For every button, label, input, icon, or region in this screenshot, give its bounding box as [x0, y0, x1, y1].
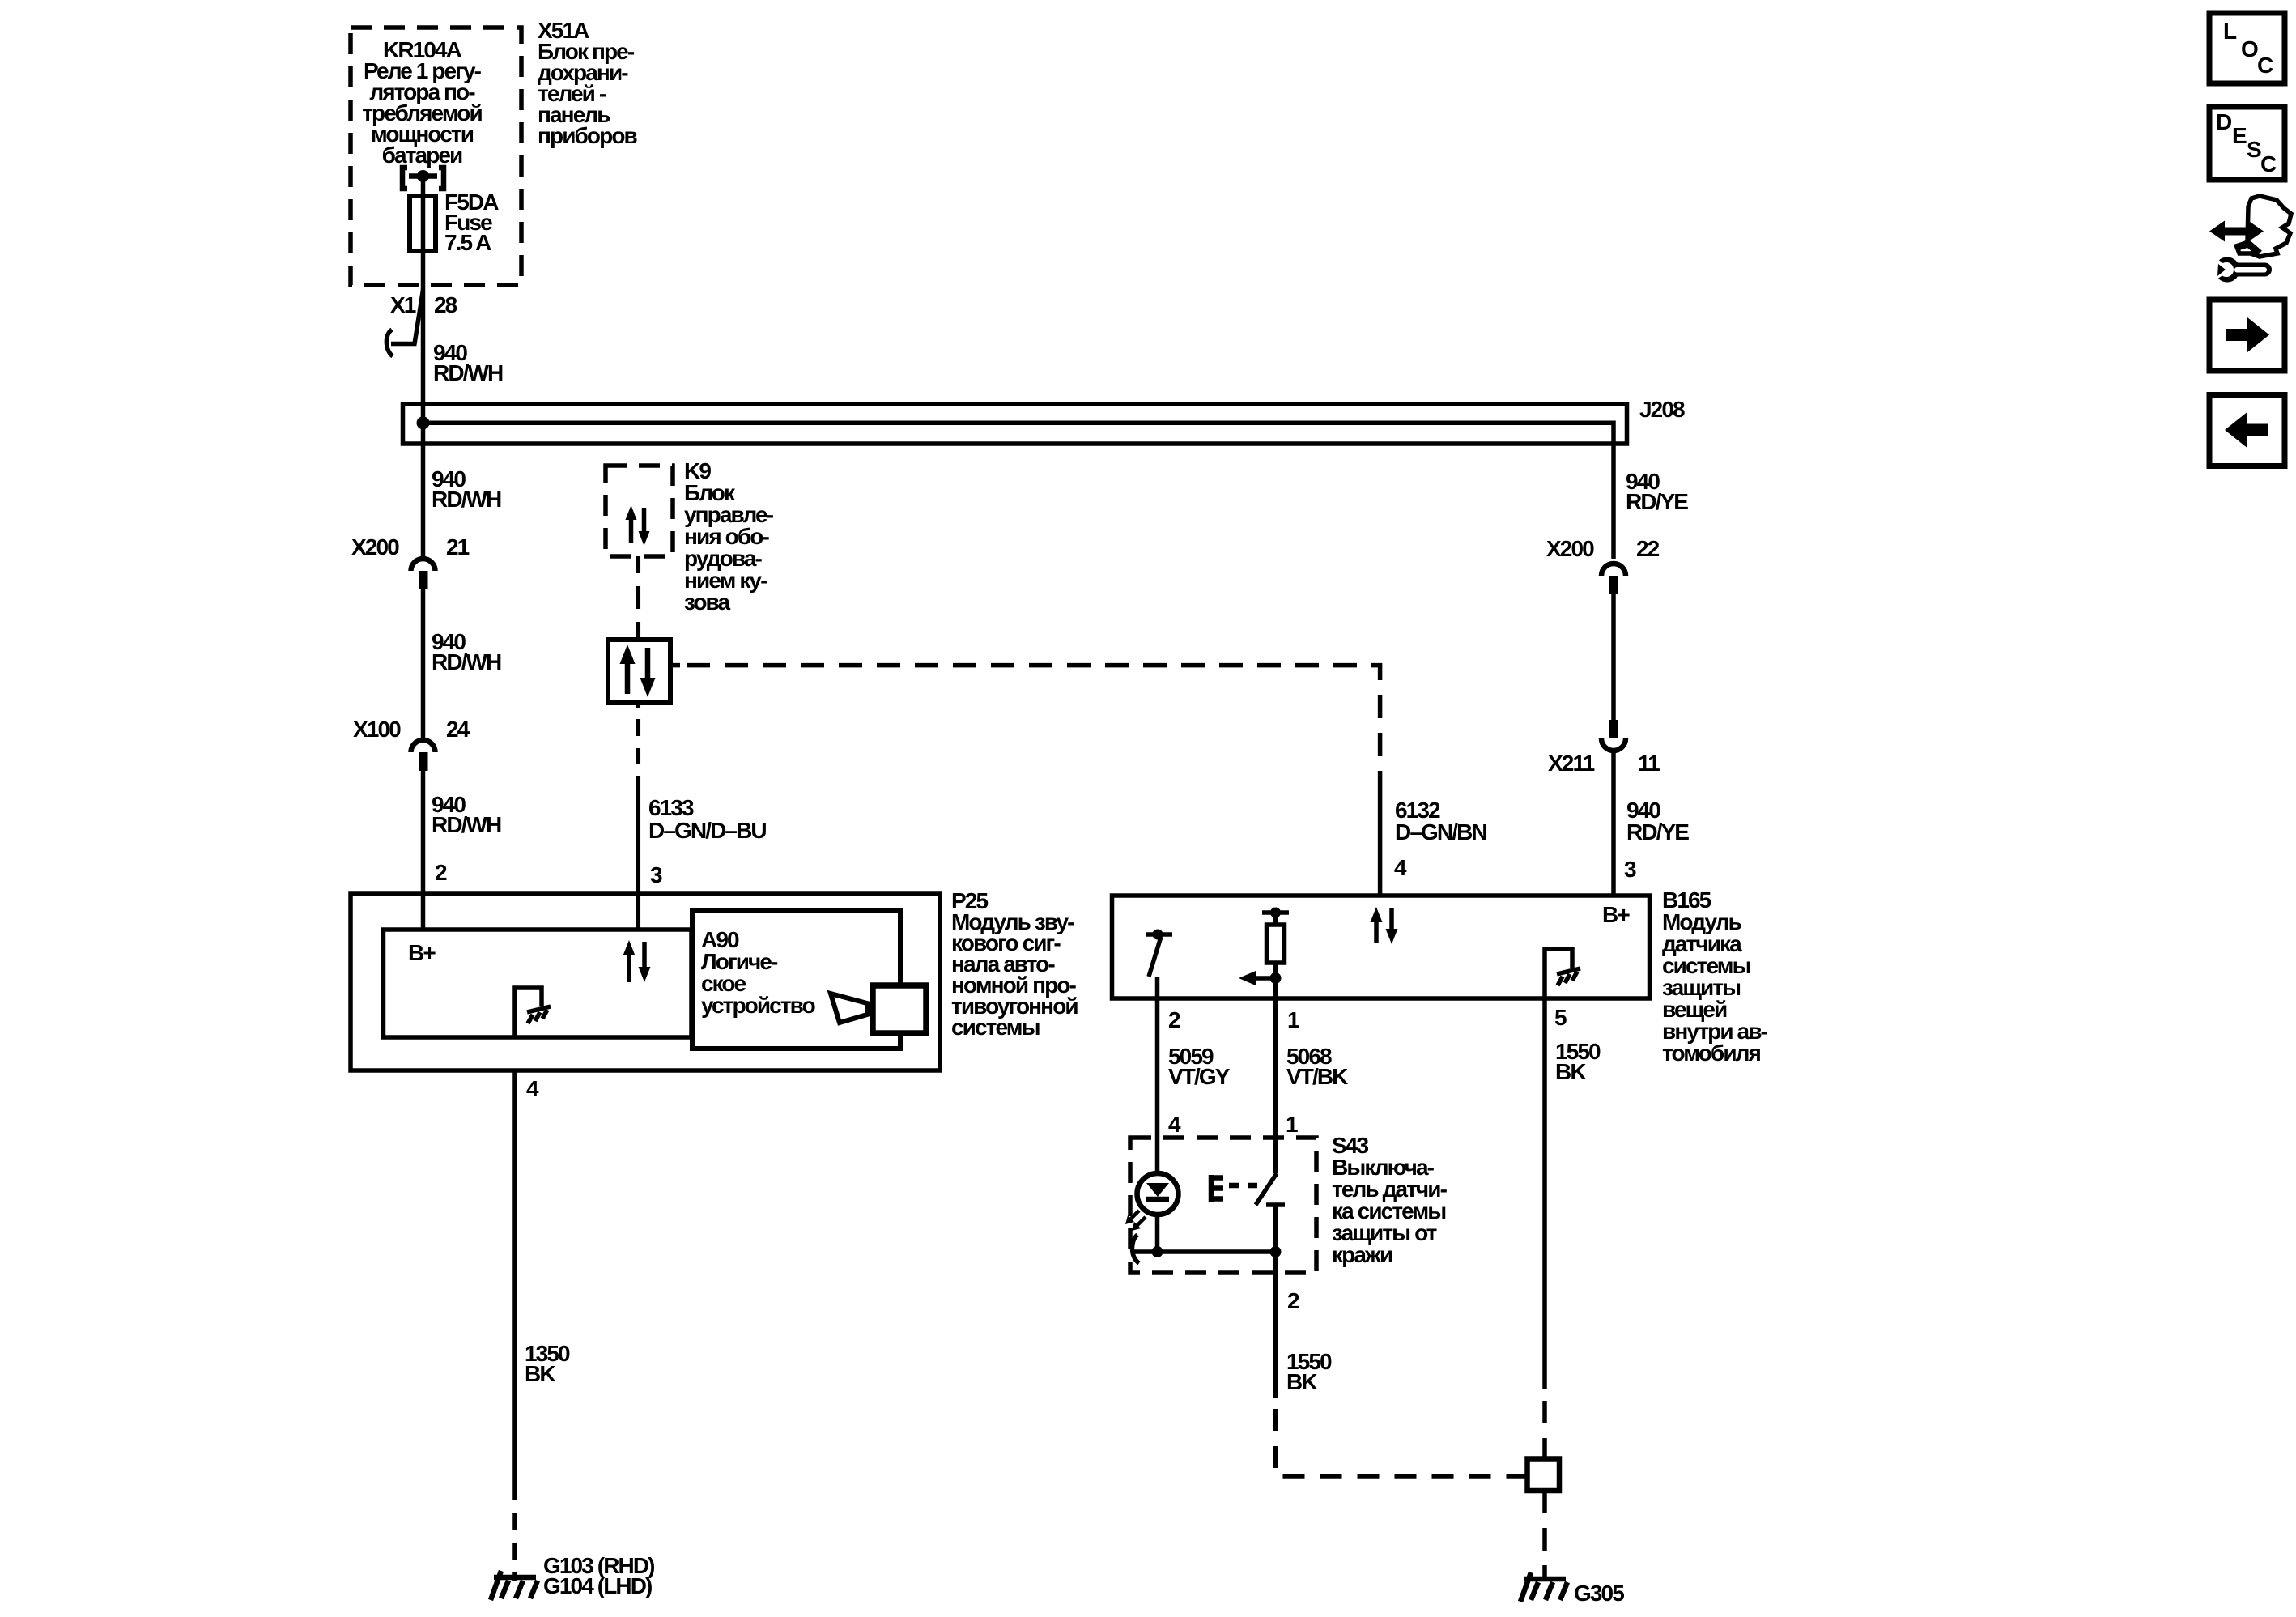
wire label 6132 D-GN/BN	[1395, 798, 1486, 845]
fuse block X51A label	[538, 18, 638, 148]
bus bar J208	[403, 404, 1627, 444]
svg-text:X1: X1	[390, 292, 416, 317]
svg-text:RD/WH: RD/WH	[432, 649, 501, 674]
svg-text:4: 4	[1394, 855, 1407, 880]
S43 switch	[1256, 1173, 1285, 1252]
logic device A90 box	[692, 911, 900, 1049]
svg-text:RD/YE: RD/YE	[1626, 819, 1689, 845]
A90 label	[701, 927, 816, 1018]
ground G103/G104	[491, 1571, 538, 1600]
svg-text:RD/WH: RD/WH	[432, 812, 501, 837]
svg-text:X200: X200	[351, 534, 399, 560]
svg-text:22: 22	[1636, 536, 1660, 561]
switch S43 dashed box	[1130, 1138, 1316, 1273]
wire label 940 RD/YE	[1626, 798, 1689, 845]
wire splice to ground G305 (dashed)	[1542, 1491, 1547, 1579]
svg-text:RD/YE: RD/YE	[1626, 489, 1688, 514]
B165 serial data arrows	[1371, 907, 1398, 944]
wire label 6133 D-GN/D-BU	[648, 795, 766, 843]
fuse F5DA	[410, 196, 436, 251]
svg-text:VT/BK: VT/BK	[1286, 1064, 1348, 1089]
relay contact terminal symbol	[402, 168, 444, 189]
wire to B165 pin 4	[1378, 778, 1383, 896]
wire data box to P25 pin 3	[636, 703, 641, 930]
svg-text:2: 2	[1287, 1288, 1299, 1313]
svg-text:C: C	[2260, 151, 2277, 177]
wire label 940 RD/WH	[433, 340, 503, 385]
wire label 940 RD/YE	[1626, 469, 1688, 514]
svg-text:X200: X200	[1546, 536, 1594, 561]
svg-text:G104 (LHD): G104 (LHD)	[543, 1573, 652, 1598]
fuse F5DA label	[444, 189, 499, 255]
svg-text:приборов: приборов	[538, 123, 638, 148]
svg-text:28: 28	[434, 292, 457, 317]
horn sounder icon	[831, 985, 926, 1033]
svg-text:BK: BK	[1555, 1059, 1586, 1084]
ground G103/G104 label	[543, 1553, 654, 1598]
svg-text:батареи: батареи	[382, 143, 462, 168]
svg-text:RD/WH: RD/WH	[433, 360, 503, 385]
S43 internal wire and junctions	[1132, 1235, 1281, 1273]
fuse block X51A dashed box	[351, 28, 521, 285]
switch actuator E symbol	[1211, 1175, 1257, 1202]
splice box	[1528, 1459, 1560, 1491]
svg-text:O: O	[2241, 36, 2258, 62]
svg-text:E: E	[2232, 123, 2247, 148]
S43 LED indicator	[1137, 1173, 1179, 1252]
svg-text:X211: X211	[1548, 751, 1595, 776]
B165 tamper switch	[1146, 930, 1172, 999]
icon arrow right box	[2209, 300, 2285, 371]
B165 signal out arrow	[1239, 971, 1282, 985]
icon LOC box	[2209, 13, 2285, 83]
svg-text:5: 5	[1554, 1005, 1567, 1030]
svg-text:зова: зова	[684, 589, 730, 615]
serial data box	[608, 640, 670, 703]
svg-text:3: 3	[1624, 857, 1636, 882]
connector X200 pin 21	[411, 559, 436, 589]
wire X100 to P25 pin 2	[421, 771, 426, 930]
svg-text:3: 3	[650, 862, 662, 887]
svg-text:D–GN/BN: D–GN/BN	[1395, 819, 1486, 845]
wire label 5059 VT/GY	[1168, 1044, 1231, 1089]
relay KR104A label	[362, 37, 482, 168]
svg-text:G305: G305	[1574, 1581, 1624, 1606]
icon arrow left box	[2209, 395, 2285, 466]
connector X100 pin 24	[411, 740, 436, 771]
svg-text:B+: B+	[408, 940, 436, 965]
module K9 dashed box	[606, 466, 673, 556]
icon DESC box	[2209, 107, 2285, 180]
module K9 label	[684, 458, 774, 615]
svg-text:6133: 6133	[648, 795, 694, 820]
wire B165 pin 5 dashed to splice	[1542, 1401, 1547, 1458]
wire X211 to B165 pin 3	[1611, 753, 1616, 896]
ground G305	[1520, 1572, 1567, 1602]
module B165 label	[1662, 887, 1768, 1066]
P25 inner B+ box	[384, 930, 692, 1037]
wire B165 pin 2 to S43 pin 4	[1155, 998, 1160, 1173]
svg-text:RD/WH: RD/WH	[432, 487, 501, 512]
B165 pull-up resistor	[1262, 908, 1289, 999]
wire X200 to X100	[421, 589, 426, 738]
wire label 940 RD/WH	[432, 629, 501, 674]
wire bus to X200-21	[421, 403, 426, 556]
LED light arrows	[1125, 1211, 1146, 1231]
icon wrench	[2209, 253, 2272, 284]
svg-text:X100: X100	[353, 717, 401, 742]
wire bus to X200-22	[1611, 441, 1616, 559]
svg-text:L: L	[2223, 19, 2237, 44]
wire B165 pin 5 down	[1542, 998, 1547, 1389]
svg-text:11: 11	[1638, 751, 1660, 776]
svg-text:томобиля: томобиля	[1662, 1040, 1761, 1066]
svg-text:C: C	[2257, 53, 2273, 78]
svg-text:B+: B+	[1602, 902, 1630, 927]
svg-text:4: 4	[526, 1076, 539, 1101]
module P25 outer box	[351, 894, 940, 1070]
wire label 5068 VT/BK	[1286, 1044, 1348, 1089]
P25 serial data arrows	[623, 940, 651, 982]
svg-text:2: 2	[1168, 1007, 1180, 1032]
svg-text:21: 21	[446, 534, 470, 560]
K9 serial data arrows	[626, 505, 650, 546]
svg-text:VT/GY: VT/GY	[1168, 1064, 1231, 1089]
P25 internal ground	[515, 988, 551, 1037]
wire label 1350 BK	[525, 1341, 570, 1386]
svg-text:2: 2	[435, 860, 447, 885]
svg-text:J208: J208	[1639, 397, 1685, 422]
connector X1 pigtail	[386, 290, 423, 356]
svg-text:24: 24	[446, 717, 470, 742]
wire P25 pin 4 to ground	[512, 1070, 517, 1581]
wire label 940 RD/WH	[432, 466, 501, 512]
wire X200-22 to X211	[1611, 594, 1616, 720]
connector X211 pin 11	[1601, 720, 1626, 751]
svg-text:системы: системы	[951, 1015, 1040, 1040]
dashed data line to B165 pin 4	[670, 666, 1380, 778]
wire label 1550 BK	[1286, 1349, 1332, 1394]
wire label 940 RD/WH	[432, 792, 501, 837]
svg-text:1: 1	[1287, 1007, 1299, 1032]
svg-text:устройство: устройство	[701, 993, 816, 1018]
module P25 label	[951, 888, 1078, 1040]
svg-text:1: 1	[1286, 1112, 1298, 1137]
wire K9 to data box (dashed)	[636, 556, 641, 640]
B165 internal ground	[1545, 949, 1580, 998]
svg-text:BK: BK	[1286, 1369, 1317, 1394]
connector X200 pin 22	[1601, 564, 1626, 594]
svg-text:кражи: кражи	[1332, 1242, 1392, 1267]
svg-text:7.5 A: 7.5 A	[444, 230, 491, 255]
module B165 box	[1112, 896, 1650, 998]
icon hand with double arrow	[2209, 196, 2291, 257]
svg-text:S: S	[2247, 137, 2261, 162]
svg-text:D: D	[2216, 109, 2232, 134]
wire B165 pin 1 to S43 pin 1	[1273, 998, 1278, 1173]
svg-text:BK: BK	[525, 1361, 555, 1386]
wire S43 pin 2 down	[1276, 1273, 1528, 1476]
svg-text:4: 4	[1168, 1112, 1181, 1137]
svg-text:D–GN/D–BU: D–GN/D–BU	[648, 818, 766, 843]
wire fuse to bus J208	[421, 176, 426, 403]
wire label 1550 BK	[1555, 1039, 1601, 1084]
switch S43 label	[1332, 1133, 1448, 1267]
